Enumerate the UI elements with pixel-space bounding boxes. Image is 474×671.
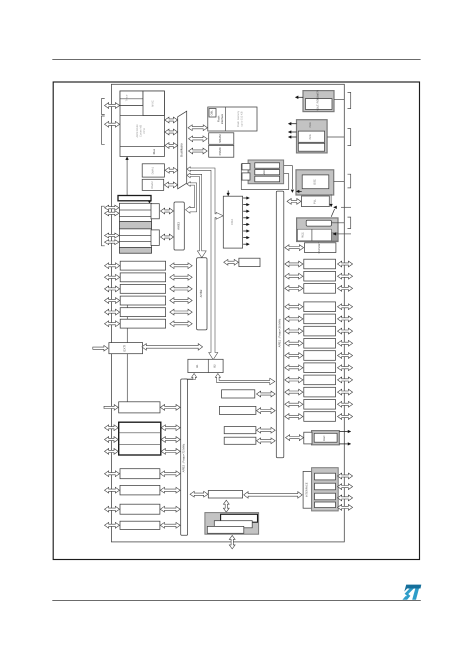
peripheral row R-8 (304, 351, 336, 361)
peripheral row L1-6 (120, 319, 165, 328)
peripheral row R-6 (304, 326, 336, 336)
svg-text:up to 512 KB: up to 512 KB (241, 111, 244, 126)
interface pin arrows (338, 473, 353, 479)
peripheral row R-4 (304, 302, 336, 312)
block TIM6 (222, 390, 255, 398)
GPIO to AHB3 arrows (161, 208, 174, 214)
svg-text:DMA2: DMA2 (151, 181, 154, 189)
svg-text:SRAM: SRAM (218, 134, 222, 143)
block DMA1 (142, 164, 164, 177)
bracket JTAG pins (102, 99, 105, 115)
bracket power pins (348, 92, 351, 108)
svg-text:interface: interface (221, 113, 224, 124)
DAC arrow (286, 435, 304, 441)
bracket RCC pins (348, 217, 351, 228)
RCC inner white bottom (298, 229, 332, 241)
wire RCC to pins (331, 222, 344, 224)
wire EXTI vertical (126, 300, 128, 343)
svg-text:B1: B1 (196, 364, 199, 368)
interface row 4 (315, 502, 336, 508)
block PWR (224, 427, 256, 434)
bridge to APB2 connector (184, 374, 196, 382)
arrow BusMatrix-Flash (188, 125, 207, 131)
GPIO ports block (119, 203, 151, 253)
ADC3 row (255, 176, 280, 182)
USB pin arrow (229, 535, 235, 549)
svg-text:AHB2: AHB2 (199, 289, 203, 297)
svg-text:DMA1: DMA1 (151, 166, 154, 174)
ST logo (402, 585, 421, 600)
ADC1 row (255, 163, 280, 168)
AHB3 bus bar (174, 202, 184, 250)
EXTI wakeup arrow (93, 345, 108, 351)
peripheral row L2-5 (120, 521, 160, 529)
GPIO gray row 2 (119, 248, 151, 254)
GPIO tab 1 (151, 204, 159, 219)
svg-text:ADC: ADC (263, 169, 266, 175)
arrow OSC32 in (334, 206, 336, 208)
svg-text:Flash: Flash (217, 115, 220, 122)
USB ctrl long arrow (244, 492, 303, 499)
arrow BusMatrix-FSMC (189, 148, 208, 154)
peripheral row R-11 (304, 387, 336, 397)
peripheral row R-5 (304, 314, 336, 324)
USB vertical arrow (223, 500, 229, 512)
svg-text:B2: B2 (214, 364, 217, 368)
supervision arrows (291, 123, 297, 125)
footer rule (52, 600, 421, 602)
wire ADC arrow down (291, 166, 293, 190)
arrow trace up into CPU (126, 158, 128, 161)
ADC left tab 1 (242, 163, 250, 170)
interface block (312, 468, 339, 511)
FSMC block (209, 145, 234, 157)
peripheral row R-7 (304, 339, 336, 349)
svg-text:Cortex-M3: Cortex-M3 (140, 124, 143, 137)
figure frame (53, 82, 419, 560)
AHB2 bus bar (197, 258, 207, 330)
svg-text:INTERFACE: INTERFACE (306, 482, 309, 497)
RCC block (297, 218, 338, 242)
bridge block (188, 359, 223, 372)
block USB ctrl (208, 491, 242, 499)
interface row 3 (315, 493, 336, 500)
EXTI block (109, 343, 143, 354)
peripheral row R-2 (304, 271, 336, 281)
power block (303, 91, 334, 112)
USB endpoint box 3 (207, 526, 244, 533)
bracket GPIO pins (102, 206, 105, 246)
USB endpoint box 1 (221, 514, 258, 522)
supervision block (297, 120, 328, 153)
wire osc to pins (334, 181, 345, 183)
RCC dark cell (331, 233, 338, 241)
peripheral row L1-3 (120, 284, 165, 293)
DMA down arrow in (227, 191, 229, 194)
svg-text:EXTI: EXTI (123, 345, 127, 352)
svg-text:OSC: OSC (314, 179, 317, 185)
wire power to pins (334, 99, 344, 101)
peripheral row R-1 (304, 259, 336, 269)
header rule (52, 59, 420, 61)
svg-text:PVD: PVD (309, 134, 312, 139)
peripheral row L1-4 (120, 296, 165, 305)
DMA block (223, 196, 242, 248)
peripheral row R-12 (304, 400, 336, 410)
small box FLITF (239, 258, 260, 266)
svg-text:ARM 32-bit: ARM 32-bit (136, 124, 139, 137)
peripheral row L1-5 (120, 308, 165, 317)
arrow TPIU down (148, 201, 151, 203)
oscillator block (296, 170, 334, 195)
bracket osc pins (348, 174, 351, 188)
svg-text:DAC: DAC (323, 435, 326, 441)
peripheral row R-3 (304, 284, 336, 294)
svg-text:BusMatrix: BusMatrix (180, 143, 184, 157)
svg-text:APB2 : Fmax=72 MHz: APB2 : Fmax=72 MHz (182, 443, 186, 472)
svg-text:IBus: IBus (152, 148, 156, 154)
GPIO gray row 1 (119, 222, 151, 229)
RCC inner white top (306, 220, 331, 226)
svg-text:OBL: OBL (211, 110, 214, 116)
arrow RCC right (333, 233, 335, 235)
APB1 bus bar (276, 191, 284, 458)
peripheral row L2-1 (119, 402, 160, 413)
switch blade (331, 209, 334, 217)
ADC left tab 2 (242, 173, 250, 180)
peripheral row R-13 (304, 412, 336, 422)
wire clock switch (330, 194, 332, 203)
svg-text:POR: POR (309, 122, 312, 127)
svg-text:STANDBY: STANDBY (318, 242, 321, 254)
bus shaft to AHB3 bar (186, 182, 197, 214)
arrow BusMatrix-SRAM (189, 136, 208, 142)
SRAM block (209, 133, 234, 145)
svg-text:AHB3: AHB3 (176, 222, 180, 230)
svg-text:PLL: PLL (314, 199, 317, 204)
block BKP (224, 437, 256, 444)
USB block (205, 513, 259, 535)
peripheral row L1-2 (120, 273, 165, 282)
trace box TPIU (118, 196, 151, 201)
diagram border (111, 84, 344, 542)
DMA1 arrow (165, 167, 178, 173)
BusMatrix (178, 111, 187, 189)
GPIO pin arrows (105, 205, 120, 210)
peripheral row L1-1 (120, 261, 165, 270)
CPU core block (120, 91, 164, 157)
standby arrow (285, 245, 304, 251)
block DMA2 (142, 179, 164, 190)
arrow into supervision gray (299, 190, 302, 192)
wire ADC left bus (240, 164, 242, 190)
svg-text:VOLT. REG.: VOLT. REG. (317, 97, 320, 111)
wire trace line CPU (126, 159, 128, 196)
standby block (305, 243, 336, 253)
svg-text:DMA: DMA (230, 219, 234, 225)
svg-text:Flash memory: Flash memory (237, 110, 240, 127)
bus shaft to AHB2 bar (187, 173, 206, 258)
APB2 bus bar (181, 379, 188, 535)
USB endpoint box 2 (214, 521, 252, 528)
DAC output arrows (339, 431, 344, 433)
interface row 1 (315, 473, 336, 480)
DMA2 arrow (164, 182, 177, 188)
block TIM7 (219, 406, 256, 414)
TIM1 TIM8 cluster (119, 422, 161, 455)
interface label box (303, 471, 312, 508)
CPU to BusMatrix arrows (165, 117, 178, 123)
DAC inner (314, 433, 337, 442)
bracket trace pins (102, 116, 105, 144)
wire EXTI down (126, 354, 128, 402)
svg-text:NVIC: NVIC (152, 100, 155, 106)
svg-text:Trace: Trace (126, 94, 129, 101)
CPU left pin arrows (105, 103, 120, 109)
ADC2 row (255, 170, 280, 175)
Flash interface block (208, 107, 257, 131)
FLITF arrow (224, 259, 239, 265)
ADC block group (248, 160, 284, 184)
wire supervision to pins (327, 136, 344, 138)
peripheral row R-10 (304, 375, 336, 385)
interface row 2 (315, 483, 336, 490)
peripheral row L2-2 (120, 469, 160, 479)
bridge to APB1 connector (215, 374, 275, 385)
GPIO tab 2 (151, 230, 159, 246)
peripheral row L2-4 (120, 504, 160, 514)
peripheral row L2-3 (120, 485, 160, 495)
EXTI to bus arrow (142, 344, 203, 351)
DMA channel arrows (243, 197, 247, 199)
OBL box (209, 109, 216, 118)
svg-text:FSMC: FSMC (218, 147, 222, 155)
DAC tab (304, 432, 312, 444)
bracket reset pins (348, 129, 351, 146)
svg-text:RCC: RCC (302, 232, 305, 238)
power supply arrow (298, 96, 304, 98)
DAC block (312, 431, 340, 445)
peripheral row R-9 (304, 363, 336, 373)
svg-text:CPU: CPU (143, 128, 146, 134)
PLL arrow (287, 199, 301, 205)
clock box PLL (302, 196, 330, 207)
USB ctrl left arrow (190, 491, 208, 497)
bus shaft to bridge and DMA (187, 167, 223, 360)
svg-text:APB1 : Fmax=36 MHz: APB1 : Fmax=36 MHz (277, 318, 281, 347)
